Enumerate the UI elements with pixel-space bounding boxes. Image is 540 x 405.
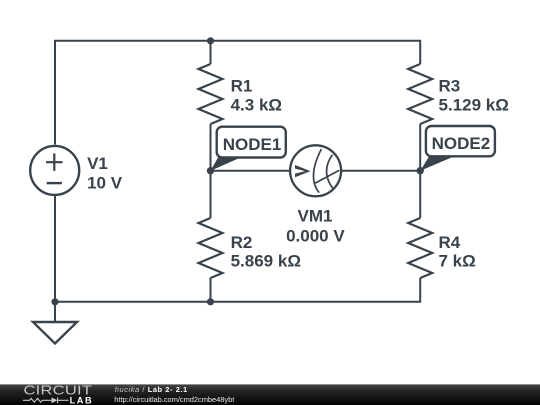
wire bottom rail with left and right corners [55,196,420,302]
svg-text:NODE2: NODE2 [432,134,491,153]
junction dot node B (NODE2) [417,167,424,174]
svg-text:R4: R4 [439,233,461,252]
node label NODE1 box [217,127,286,158]
junction dot top middle [207,37,214,44]
svg-text:hucika / Lab 2- 2.1: hucika / Lab 2- 2.1 [115,385,188,394]
wire node1 to voltmeter [211,170,290,172]
svg-text:0.000 V: 0.000 V [286,226,345,245]
svg-text:4.3 kΩ: 4.3 kΩ [231,96,282,115]
svg-text:R3: R3 [439,76,461,95]
wire middle branch bottom stub [210,278,212,302]
junction dot node A (NODE1) [207,167,214,174]
wire right branch between R3 and R4 [419,124,421,218]
voltmeter VM1 [290,145,341,196]
svg-text:LAB: LAB [70,396,94,405]
resistor R1 [199,64,223,124]
footer logo mini circuit (resistor + diode) [23,397,69,403]
svg-text:VM1: VM1 [298,207,333,226]
resistor R2 labels [231,233,301,270]
voltage source V1 [30,146,79,195]
svg-text:5.129 kΩ: 5.129 kΩ [439,96,509,115]
junction dot bottom middle [207,298,214,305]
junction dot ground [51,298,58,305]
wire voltmeter to node2 [342,170,421,172]
resistor R3 labels [439,76,509,114]
svg-text:5.869 kΩ: 5.869 kΩ [231,251,301,270]
voltmeter needle chevron [295,165,311,177]
node label NODE2 box [426,126,495,156]
svg-text:R2: R2 [231,233,253,252]
ground [33,302,77,344]
resistor R4 labels [439,233,476,270]
svg-text:NODE1: NODE1 [223,135,282,154]
node label NODE2 pointer [420,156,455,171]
svg-text:V1: V1 [87,154,108,173]
svg-text:10 V: 10 V [87,174,123,193]
resistor R1 labels [231,76,282,114]
voltmeter VM1 labels [286,207,345,246]
svg-text:7 kΩ: 7 kΩ [439,251,476,270]
svg-text:R1: R1 [231,76,253,95]
resistor R4 [408,218,432,278]
footer logo diode triangle [52,397,58,403]
voltage source V1 labels [87,154,123,193]
resistor R3 [408,64,432,124]
wire middle branch top stub [210,41,212,64]
footer bar [0,384,540,405]
node label NODE1 pointer [211,157,242,171]
svg-text:http://circuitlab.com/cmd2cmbe: http://circuitlab.com/cmd2cmbe48ybt [114,395,235,404]
wire top rail with left and right corners [55,41,420,145]
resistor R2 [199,218,223,278]
wire middle branch between R1 and R2 [210,124,212,218]
